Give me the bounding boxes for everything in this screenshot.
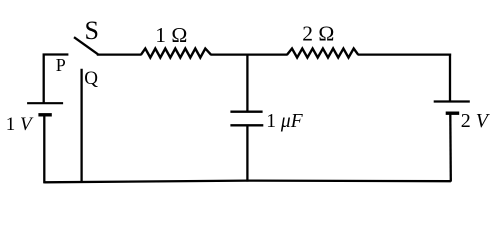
wire: capacitor upper lead (top rail down to C1) xyxy=(246,54,248,111)
wire: capacitor lower lead (C1 to bottom rail) xyxy=(246,126,248,181)
battery V2 short plate (-) xyxy=(446,111,460,114)
resistor R1 xyxy=(141,49,211,58)
svg-text:P: P xyxy=(56,55,66,75)
svg-text:1 V: 1 V xyxy=(6,114,34,135)
wire: right branch upper (corner down to battery V2) xyxy=(449,54,451,101)
svg-text:1 Ω: 1 Ω xyxy=(155,23,187,47)
switch S blade xyxy=(74,37,98,54)
svg-text:2 Ω: 2 Ω xyxy=(302,21,334,45)
capacitor C1 bottom plate xyxy=(230,124,263,126)
battery V1 long plate (+) xyxy=(27,102,63,104)
contact P (bracket from battery top up to switch level) xyxy=(44,55,69,104)
svg-text:Q: Q xyxy=(84,68,98,89)
resistor R2 xyxy=(287,49,358,58)
wire: bottom rail xyxy=(44,181,451,183)
contact Q (vertical stub to bottom rail) xyxy=(80,69,82,183)
svg-text:2 V: 2 V xyxy=(461,110,491,132)
wire: R1 to R2 (through capacitor node) xyxy=(211,53,288,55)
battery V2 long plate (+) xyxy=(434,100,470,102)
wire: switch to R1 xyxy=(97,53,142,55)
wire: R2 to top-right corner xyxy=(358,53,451,55)
capacitor C1 top plate xyxy=(230,111,262,113)
svg-text:1 μF: 1 μF xyxy=(266,111,303,132)
battery V1 short plate (-) xyxy=(38,113,51,116)
svg-text:S: S xyxy=(85,16,99,45)
wire: left branch lower (bottom rail up to battery V1) xyxy=(43,116,45,184)
wire: right branch lower (battery V2 to bottom rail) xyxy=(449,115,452,182)
